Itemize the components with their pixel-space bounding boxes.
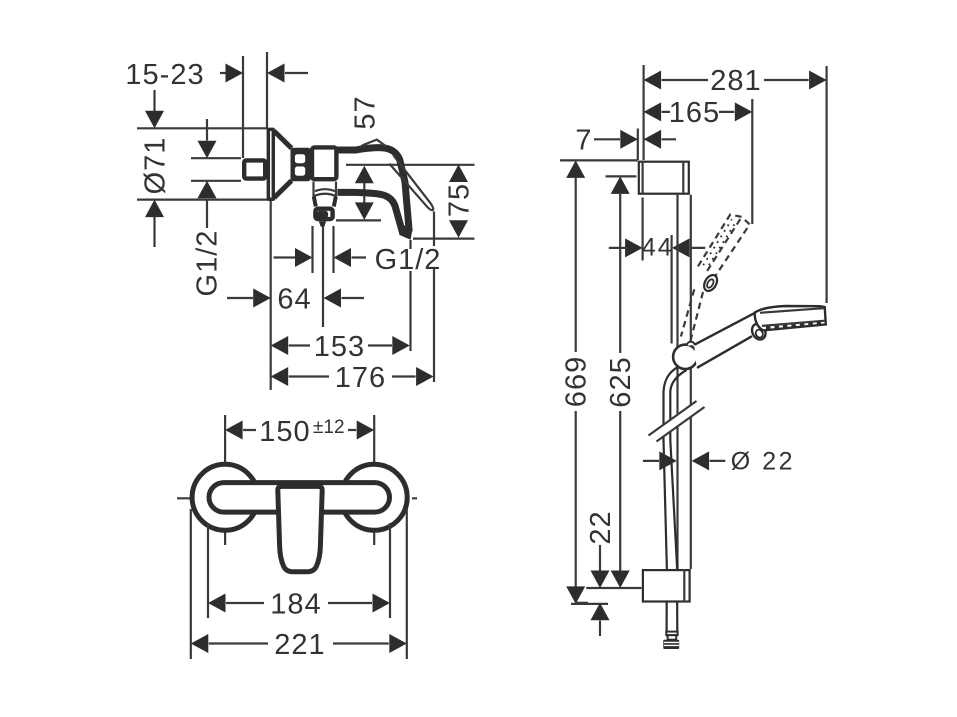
handshower handle [694,312,754,368]
holder ball [673,345,697,369]
center dashed line [177,497,422,499]
svg-text:±12: ±12 [313,417,345,438]
wall reference line [270,201,272,390]
handle top stroke [338,148,410,232]
extension line left center [224,415,226,545]
dim O71 arrows [153,90,155,111]
extension line bar left [642,65,644,160]
svg-text:165: 165 [669,97,720,129]
supply pipe [244,160,265,178]
dim 281 [662,79,809,81]
SIDE VIEW DIMS [125,52,475,394]
dim 153 [271,336,289,355]
svg-text:64: 64 [277,284,311,316]
dim 184 [226,602,372,604]
handle tip [397,222,413,240]
hose nut [663,640,679,649]
extension line right center [373,415,375,545]
mixer body [312,147,336,179]
dim 64 arrows [227,297,364,299]
svg-text:G1/2: G1/2 [192,230,224,297]
outlet neck [314,197,336,207]
handle open position blade [393,155,433,210]
svg-text:44: 44 [642,234,674,262]
svg-text:7: 7 [575,125,592,157]
svg-text:153: 153 [314,331,365,363]
extension line bracket axis [586,587,641,589]
outlet centerline [322,226,324,327]
hose end neck [668,635,677,640]
dim 57 arrows [355,166,374,184]
hose end ring [666,632,677,636]
spray nozzles [766,323,821,328]
extension line escutcheon bottom [137,199,267,201]
extension line wall min [242,56,244,158]
dashed collar [701,273,719,293]
handshower collar [750,321,769,341]
extension line head right [825,66,827,303]
dim 221 [209,642,389,644]
break mark [649,401,705,442]
dashed handle [681,289,703,341]
SHOWER BAR [560,65,827,649]
handshower head [755,306,826,330]
extension line holder [670,235,672,344]
extension line outlet bottom level [336,219,381,221]
svg-text:281: 281 [710,65,761,97]
svg-text:Ø71: Ø71 [140,137,172,195]
mixer bar body [209,483,390,512]
svg-text:221: 221 [274,629,325,661]
extension lines outlet thread [313,226,334,273]
dashed nozzles [703,219,732,265]
svg-text:22: 22 [585,510,617,544]
dim 165 [662,111,735,113]
MIXER SIDE GRAPHIC [244,128,433,240]
dim O22 [643,460,725,462]
union section [314,182,337,197]
head spray band [762,321,825,326]
svg-text:57: 57 [350,95,382,129]
svg-text:G1/2: G1/2 [375,244,442,276]
dim G1/2 outlet arrows [274,256,367,258]
extension lines bar ends [208,523,390,618]
right escutcheon circle [341,464,407,530]
front handle [278,486,322,571]
FRONT VIEW [177,415,422,661]
extension line handle open tip [433,212,435,383]
holder clip nub [687,342,695,346]
extension line bracket bottom [575,602,588,604]
dim G1/2 pipe arrows [206,119,208,141]
dim 176 [271,367,289,386]
svg-text:15-23: 15-23 [125,59,204,91]
rod left line [676,195,678,569]
top wall bracket [639,162,689,194]
escutcheon cone [274,131,292,198]
extension line escutcheon top [137,127,267,129]
escutcheon face [267,128,275,201]
extension lines overall width [191,509,407,659]
outlet nut [315,209,332,219]
extension line bracket inner [641,198,643,261]
dim 669 [560,159,638,161]
bottom wall bracket [643,570,690,601]
rod right line [690,195,692,569]
svg-text:150: 150 [259,416,310,448]
dim 44 [609,247,706,249]
extension line handle tip [409,240,411,351]
dim 75 arrows [449,165,468,183]
dashed handshower head [698,215,750,278]
extension line shower pivot top [751,99,753,224]
svg-text:Ø 22: Ø 22 [731,448,795,476]
svg-text:176: 176 [335,362,386,394]
svg-text:669: 669 [561,356,593,407]
svg-text:184: 184 [270,589,321,621]
handle open position knob [360,140,387,148]
hose left line [664,367,679,632]
dim 15-23 line and arrows [220,72,308,74]
extension line wall face [637,129,639,161]
svg-text:625: 625 [605,356,637,407]
extension line wall max [266,52,268,128]
head top inner line [760,308,824,313]
dim 150 line [243,429,356,431]
svg-text:75: 75 [444,183,476,217]
outlet tip [319,221,326,226]
extension line handle top level [346,164,475,166]
outlet thread [319,213,326,217]
handle bottom stroke [338,192,403,233]
extension stubs pipe [191,158,241,181]
extension line handle tip level [413,238,475,240]
dim 625 [606,175,637,177]
coupling rings [291,148,311,181]
hose right line [670,370,686,632]
left escutcheon circle [192,464,258,530]
